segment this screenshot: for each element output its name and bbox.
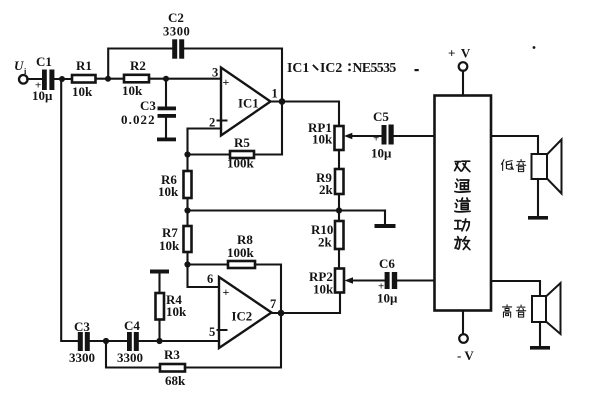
wire RP2 wiper to C6	[352, 279, 385, 281]
node E (IC1 output pin 1)	[279, 98, 286, 105]
svg-text:R5: R5	[234, 135, 250, 150]
wire input terminal to C1	[27, 78, 42, 80]
svg-text:10k: 10k	[313, 282, 334, 297]
wire IC2 output to RP2 bottom	[272, 293, 341, 314]
svg-text:0.022: 0.022	[121, 112, 156, 127]
potentiometer RP2 10k	[309, 269, 353, 297]
ground bar (C3 bottom)	[157, 138, 176, 142]
wire amplifier block to tweeter	[491, 281, 540, 296]
wire node F to R7	[186, 211, 188, 227]
svg-text:IC1: IC1	[287, 60, 309, 75]
svg-text:2k: 2k	[319, 182, 334, 197]
resistor R5 100k	[227, 135, 255, 171]
svg-text:C4: C4	[124, 318, 140, 333]
wire R2 to IC1 pin 3	[149, 78, 221, 80]
wire node J down to R3	[106, 341, 160, 368]
wire R6 to node F	[186, 198, 188, 211]
wire C4 to IC2 pin 5	[139, 340, 219, 342]
wire RP1 wiper to C5	[351, 135, 382, 137]
svg-text:U: U	[14, 58, 24, 73]
wire node G to R10	[338, 211, 340, 222]
wire R1 to R2	[96, 78, 125, 80]
svg-text:10k: 10k	[159, 238, 180, 253]
svg-text:C1: C1	[36, 54, 52, 69]
resistor R4 10k	[156, 292, 188, 320]
wire IC1 pin 2 to node D	[188, 129, 222, 155]
char tong (amp)	[455, 179, 470, 192]
svg-text:7: 7	[270, 297, 276, 311]
capacitor C3 0.022	[121, 79, 176, 138]
resistor R6 10k	[158, 171, 192, 199]
wire C2 to IC1 output node	[184, 49, 282, 102]
svg-text:3300: 3300	[163, 25, 190, 39]
label tweeter (high tone, CJK paths)	[502, 305, 525, 317]
wire R3 to IC2 output node	[185, 313, 281, 368]
potentiometer RP1 10k	[308, 120, 352, 150]
svg-text:68k: 68k	[165, 373, 186, 388]
wire C1 to input node	[54, 78, 72, 80]
node F (R6/R7/mid rail junction)	[184, 207, 190, 213]
capacitor C2 3300	[163, 10, 190, 59]
wire C3b to C4	[90, 340, 127, 342]
node G (R9/R10 junction on mid rail)	[336, 207, 342, 213]
wire R10 to RP2	[338, 249, 340, 269]
char dao (amp)	[455, 198, 470, 212]
svg-text:10k: 10k	[122, 83, 143, 98]
ground (mid rail)	[375, 211, 396, 229]
node A (C1/R1/left rail junction)	[59, 76, 65, 82]
node C (R2/C3 junction)	[163, 76, 169, 82]
svg-text:10μ: 10μ	[377, 291, 398, 306]
svg-text:C5: C5	[373, 109, 389, 124]
print speck top right	[533, 46, 536, 49]
wire IC1 output to RP1	[271, 102, 340, 127]
wire node H to R8	[188, 263, 229, 265]
node D (pin2/R5/R6 junction)	[184, 151, 190, 157]
amplifier block (dual-channel power amp)	[435, 96, 492, 311]
capacitor C5 10u	[371, 109, 394, 161]
svg-text:2k: 2k	[318, 235, 333, 250]
op-amp IC2	[218, 277, 272, 348]
ground (woofer)	[528, 179, 548, 220]
amplifier block text (CJK drawn as paths)	[455, 161, 471, 249]
svg-text:2: 2	[209, 116, 215, 130]
op-amp IC1	[218, 68, 271, 136]
char shuang (amp)	[455, 161, 470, 171]
wire mid rail node F to ground	[188, 209, 386, 211]
node B (R1/R2/C2 junction)	[105, 76, 111, 82]
svg-text:10k: 10k	[72, 84, 93, 99]
speaker woofer (low)	[532, 140, 562, 194]
svg-text:10μ: 10μ	[371, 146, 392, 161]
svg-text:IC2: IC2	[320, 60, 342, 75]
resistor R9 2k	[316, 169, 344, 197]
wire R9 to node G	[338, 194, 340, 211]
wire amplifier block to -V	[462, 311, 464, 335]
wire amplifier block to woofer	[491, 136, 538, 154]
resistor R10 2k	[311, 221, 344, 250]
node H (R7/R8/pin6 junction)	[184, 261, 190, 267]
wire C6 to amplifier block	[397, 279, 434, 281]
capacitor C4 3300	[117, 318, 143, 365]
+V supply terminal	[448, 46, 471, 71]
svg-text:IC1: IC1	[238, 97, 259, 111]
label woofer (low tone, CJK paths)	[501, 159, 525, 171]
svg-text:- V: - V	[457, 348, 474, 363]
resistor R2 10k	[122, 58, 149, 98]
svg-text:C6: C6	[379, 256, 395, 271]
svg-text:10k: 10k	[158, 184, 179, 199]
node J (C3b/C4/R3 junction)	[103, 338, 109, 344]
wire node B up to C2	[108, 49, 172, 79]
node K (C4/R4/pin5 junction)	[156, 338, 162, 344]
print speck near amplifier	[415, 69, 419, 71]
svg-text:C3: C3	[140, 98, 156, 113]
svg-text:NE5535: NE5535	[353, 60, 397, 75]
resistor R7 10k	[159, 225, 192, 253]
resistor R3 68k	[160, 347, 186, 388]
-V supply terminal	[457, 334, 474, 363]
wire node H to IC2 pin 6	[188, 265, 220, 288]
wire node D to R6	[186, 155, 188, 172]
svg-text:10k: 10k	[166, 304, 187, 319]
label IC1 IC2 NE5535	[287, 60, 396, 75]
svg-text:5: 5	[209, 325, 215, 339]
svg-text:C2: C2	[168, 10, 184, 25]
svg-text:100k: 100k	[227, 156, 255, 171]
svg-text:+ V: + V	[448, 46, 471, 61]
wire bottom row rail to C3b	[77, 340, 80, 342]
wire R5 to IC1 output node	[254, 102, 282, 155]
svg-text:R2: R2	[130, 58, 146, 73]
wire node D to R5	[188, 153, 231, 155]
wire RP1 to R9	[338, 150, 340, 169]
node I (IC2 output pin 7)	[278, 310, 285, 317]
svg-text:+: +	[373, 133, 379, 145]
svg-text:R3: R3	[164, 347, 180, 362]
capacitor C1 10u	[32, 54, 54, 103]
resistor R8 100k	[227, 232, 255, 268]
svg-text:1: 1	[272, 87, 278, 101]
svg-text:3300: 3300	[117, 350, 143, 365]
capacitor C3b 3300 (bottom)	[69, 319, 95, 365]
svg-text:IC2: IC2	[232, 310, 253, 324]
wire left rail node A down to bottom row	[61, 79, 78, 341]
ground (tweeter)	[530, 322, 550, 350]
svg-text:3: 3	[212, 66, 218, 80]
capacitor C6 10u	[377, 256, 398, 306]
speaker tweeter (high)	[532, 283, 561, 334]
svg-text:6: 6	[207, 272, 213, 286]
wire C5 to amplifier block	[394, 135, 435, 137]
char fang (amp)	[455, 237, 470, 250]
char gong (amp)	[455, 219, 470, 231]
wire +V to amplifier block	[462, 71, 464, 96]
svg-text:10k: 10k	[312, 132, 333, 147]
svg-text:R1: R1	[76, 58, 92, 73]
resistor R1 10k	[72, 58, 96, 99]
svg-text:+: +	[223, 75, 230, 89]
wire R8 to IC2 output node	[255, 265, 281, 314]
ground bar (R4 top)	[150, 270, 169, 274]
wire node K up to R4	[158, 320, 160, 342]
svg-text:C3: C3	[74, 319, 90, 334]
wire R7 to node H	[186, 252, 188, 265]
wire R4 to ground bar	[158, 274, 160, 294]
svg-text:3300: 3300	[69, 350, 95, 365]
input terminal Ui	[14, 58, 28, 84]
svg-text:10μ: 10μ	[32, 88, 53, 103]
svg-text:+: +	[223, 285, 230, 299]
svg-text:100k: 100k	[227, 245, 255, 260]
